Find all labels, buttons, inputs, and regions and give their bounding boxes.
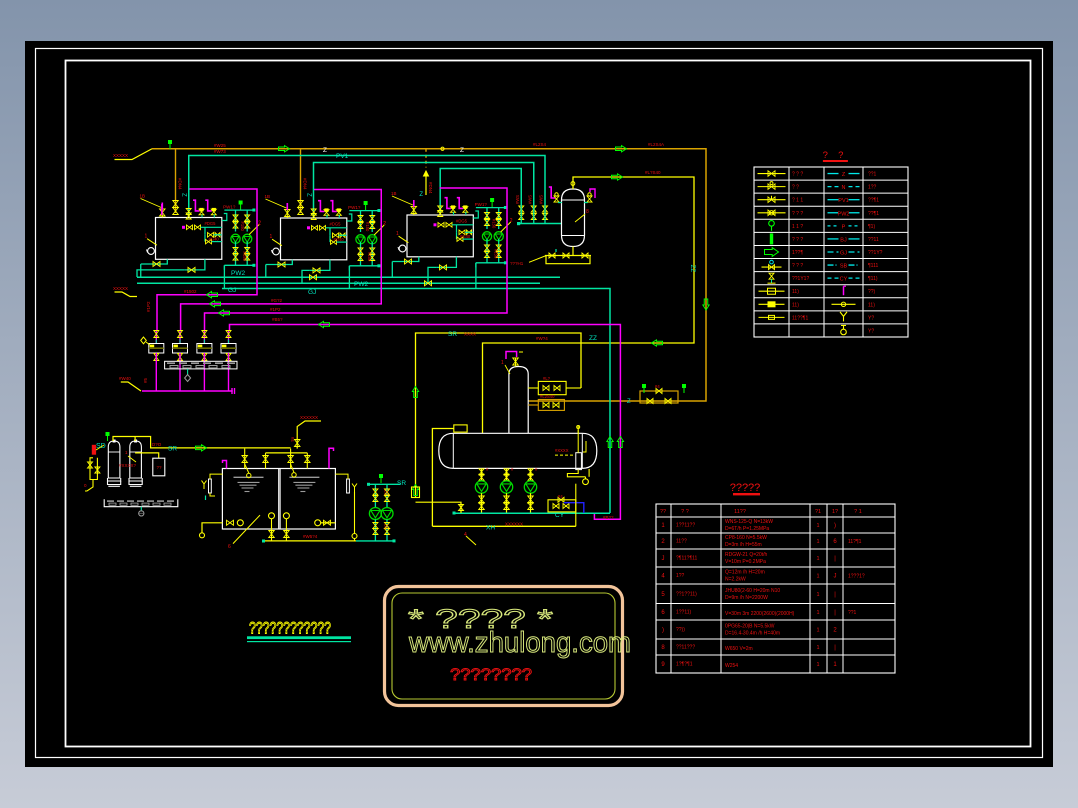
boiler B2 internal blowdown lines [307,226,310,229]
title underline thick [247,636,351,639]
right gauge Y fitting [352,484,357,493]
title underline thin [247,641,351,642]
boiler B1 right-top teal stub [222,214,227,221]
svg-text:#L?S40: #L?S40 [645,170,661,175]
svg-text:#XXXX?: #XXXX? [119,463,137,468]
boiler B1 top valve with vent [160,209,166,216]
svg-text:#B??: #B?? [603,515,614,520]
sample drain header [142,390,233,392]
svg-text:#DN4: #DN4 [428,182,433,194]
CY strainer assembly [548,500,576,512]
svg-text:????????: ???????? [450,666,532,684]
deaerator drain [567,470,585,477]
svg-text:W254: W254 [725,663,738,669]
deaerator inlet box [454,425,467,432]
svg-text:WNS-125-Q N=13kW: WNS-125-Q N=13kW [725,519,773,525]
svg-text:#G40: #G40 [209,236,220,241]
svg-text:#L2S4: #L2S4 [533,142,547,147]
svg-text:SR: SR [397,480,406,487]
svg-text:1??: 1?? [868,185,877,191]
svg-text:GJ: GJ [308,289,316,296]
boiler B1 pump tag 2 [249,225,259,235]
svg-text:#1502: #1502 [184,289,197,294]
svg-text:??1Y1?: ??1Y1? [792,276,809,282]
steam manifold valves [519,206,524,212]
svg-text:??¶1: ??¶1 [868,198,879,204]
svg-text:1: 1 [816,523,819,529]
svg-text:P: P [842,224,846,230]
boiler B1 internal blowdown lines [182,226,185,229]
svg-text:#B5?: #B5? [272,317,283,322]
column top valve [513,358,519,365]
filter bypass loop [90,458,97,480]
sample trench [165,361,237,369]
svg-text:#W40: #W40 [119,376,131,381]
svg-text:PW1?: PW1? [475,202,488,207]
svg-text:??11???: ??11??? [676,645,695,651]
svg-text:???H1: ???H1 [510,261,524,266]
sample line D [230,325,621,520]
softened water tanks [222,469,335,530]
svg-text:D?O: D?O [152,442,162,447]
boiler B2 pump discharge header [349,265,378,267]
svg-text:D=6T/h P=1.25MPa: D=6T/h P=1.25MPa [725,526,769,532]
junction circle on Z [441,147,444,150]
svg-text:11??¶1: 11??¶1 [792,315,808,321]
boiler B1 feed pump header [224,209,253,211]
svg-text:J: J [834,574,837,580]
boiler B3 internal blowdown lines [434,223,437,226]
svg-text:V=30m 3m 2200(2600)(2000H): V=30m 3m 2200(2600)(2000H) [725,611,795,617]
svg-text:Z: Z [460,147,464,154]
left yellow feed stub [115,292,138,297]
svg-text:??): ??) [868,289,876,295]
svg-text:??)): ??)) [676,627,685,633]
boiler B3 blowdown outlet left [392,257,419,262]
tank inlet drops [245,464,249,473]
vessel steam out ZZ [483,177,695,433]
blowdown line GJ [222,289,610,514]
SR line to tanks [178,447,291,449]
tank bottom header [262,540,265,543]
svg-text:??1: ??1 [848,610,857,616]
boiler B2 feed pump header [349,210,378,212]
svg-text:Z: Z [323,147,327,154]
svg-text:1???1?: 1???1? [848,574,865,580]
svg-text:PV1: PV1 [838,198,848,204]
svg-text:D=16.4-30.4m /h H=40m: D=16.4-30.4m /h H=40m [725,631,780,637]
svg-text:N: N [842,185,846,191]
boiler B3 top valve with vent [411,207,417,214]
boiler feed suction line CY [454,512,610,514]
boiler B2 steam valve [311,209,316,215]
svg-text:#W?4: #W?4 [536,336,548,341]
svg-text:#L2S40: #L2S40 [540,394,555,399]
svg-text:PW2: PW2 [354,281,368,288]
pump discharge drop B1 [223,265,225,288]
svg-text:??: ?? [157,465,163,470]
svg-text:1?: 1? [832,509,838,515]
svg-text:GJ: GJ [228,287,236,294]
svg-text:11): 11) [868,302,875,308]
svg-text:SB: SB [840,264,848,270]
Z riser to boiler 3 [425,149,427,168]
SR instrument loop [412,487,420,498]
svg-text:Q=12m /h H=20m: Q=12m /h H=20m [725,570,765,576]
sample line A [157,189,257,330]
equipment table grid [656,504,895,673]
salt tank feed [135,453,159,458]
boiler blowdown drops [140,264,142,277]
transfer pumps [368,483,400,485]
svg-text:#4: #4 [290,437,295,442]
svg-text:#1P2: #1P2 [270,307,281,312]
svg-text:Z: Z [419,192,423,198]
svg-text:Y?: Y? [868,315,874,321]
svg-text:#150: #150 [367,252,372,262]
tank outlets [202,523,222,533]
svg-text:1: 1 [816,610,819,616]
svg-text:#DG5: #DG5 [456,218,468,223]
deaerator level gauge [576,453,582,470]
svg-text:www.zhulong.com: www.zhulong.com [408,627,631,659]
boiler B2 burner circle [273,248,280,255]
boiler B1 shell [156,218,222,260]
sample line C [205,188,508,330]
svg-text:1B: 1B [140,194,146,199]
svg-text:Z: Z [306,193,312,197]
tank inlet manifold [266,452,308,454]
svg-text:?: ? [838,150,843,161]
blue instrument line [564,503,584,513]
svg-text:): ) [834,523,836,529]
svg-text:Y?: Y? [868,328,874,334]
softener filters [108,441,120,478]
svg-text:8: 8 [586,209,589,215]
svg-text:1: 1 [270,234,273,240]
boiler 3 steam header [440,169,521,215]
boiler B3 feed pump header [476,207,505,209]
svg-text:ZZ: ZZ [689,265,695,273]
svg-text:#1P2: #1P2 [146,301,151,312]
tank level gauges [209,479,212,493]
svg-text:#WS: #WS [515,195,520,204]
svg-text:D=9m /h N=2200W: D=9m /h N=2200W [725,595,768,601]
svg-text:GJ: GJ [840,251,847,257]
svg-text:1: 1 [816,645,819,651]
svg-text:1B: 1B [265,194,271,199]
svg-text:SR: SR [448,331,457,338]
svg-text:PW1?: PW1? [348,205,361,210]
svg-text:N=2.2kW: N=2.2kW [725,577,746,583]
boiler B3 safety vent elbows [445,198,451,209]
svg-text:Z: Z [627,399,631,405]
svg-text:1: 1 [145,234,148,240]
boiler B1 feed pumps [235,210,237,231]
boiler B1 blowdown outlet right [185,259,205,270]
svg-text:Z5: Z5 [384,490,389,496]
boiler B2 shell [281,218,347,260]
boiler B1 blowdown outlet left [141,259,168,264]
boiler B2 top valve with vent [285,210,291,217]
svg-text:?1: ?1 [815,509,821,515]
column tag 1 [505,365,510,374]
svg-text:XH: XH [486,525,495,532]
boiler B3 shell [407,215,473,257]
svg-text:??: ?? [660,509,666,515]
column steam-in assembly upper [538,381,566,394]
svg-text:??¶1: ??¶1 [868,211,879,217]
svg-text:D=3m /h H=55m: D=3m /h H=55m [725,542,762,548]
svg-text:1: 1 [816,628,819,634]
svg-text:#4: #4 [655,384,660,389]
vessel vent elbows [549,187,556,198]
svg-text:1: 1 [816,592,819,598]
sample coolers [155,330,157,343]
svg-text:CY: CY [555,512,565,519]
boiler vent stub B1 [161,204,163,215]
svg-text:CP8-160 N=5.5kW: CP8-160 N=5.5kW [725,535,767,541]
boiler B2 blowdown outlet right [310,260,330,271]
pump tag 4 [466,536,476,545]
sampler tag [141,337,147,344]
deaerator column [509,367,528,434]
svg-text:#150: #150 [492,219,497,229]
svg-text:? ? ?: ? ? ? [792,172,803,178]
svg-text:#G40: #G40 [460,234,471,239]
feedwater line PW2 lower [137,282,540,284]
svg-text:1??11??: 1??11?? [676,523,695,529]
svg-text:#L2S4A: #L2S4A [648,142,664,147]
svg-text:CY: CY [840,277,848,283]
svg-text:11?¶1: 11?¶1 [848,539,862,545]
svg-text:¶1): ¶1) [868,224,875,230]
svg-text:#5: #5 [143,377,148,383]
recirculation XH line [432,525,575,527]
boiler B3 pump tag 2 [501,222,511,232]
svg-text:????????????: ???????????? [249,619,331,638]
svg-text:1: 1 [816,662,819,668]
svg-text:ZZ: ZZ [589,335,597,342]
svg-text:BJ: BJ [840,237,847,243]
svg-text:2: 2 [510,218,513,224]
boiler B3 feed pumps [486,208,488,229]
svg-text:??1??11): ??1??11) [676,591,697,597]
svg-text:? ? ?: ? ? ? [792,237,803,243]
svg-text:¶11): ¶11) [868,276,878,282]
Z pressure reducing bypass [640,391,678,403]
svg-text:?¶11?¶11: ?¶11?¶11 [676,556,698,562]
svg-text:RDGW-21 Q=20t/h: RDGW-21 Q=20t/h [725,552,768,558]
svg-text:#G?2: #G?2 [271,298,283,303]
boiler B2 blowdown outlet left [266,260,293,265]
boiler B1 safety vent elbows [193,200,199,211]
svg-text:#W73: #W73 [214,149,226,154]
svg-text:#DN4: #DN4 [178,178,183,190]
salt tank [153,458,165,476]
XH drop from drain [575,484,577,527]
svg-text:J: J [662,556,665,562]
svg-text:1??11): 1??11) [676,609,692,615]
tank magenta stubs [223,461,227,469]
svg-text:? 1: ? 1 [854,509,862,515]
svg-text:SR: SR [168,446,177,453]
svg-text:1??¶: 1??¶ [792,250,803,256]
svg-text:1: 1 [816,556,819,562]
tank vent riser [297,421,321,449]
svg-text:#150: #150 [242,252,247,262]
vent flag on Z [169,144,171,149]
pump discharge drop B2 [348,266,350,289]
svg-text:? ?: ? ? [792,185,799,191]
boiler B3 steam valve [438,206,443,212]
boiler B2 right-top teal stub [347,214,352,221]
recirc takeoff [416,502,462,513]
steam main Z line [115,149,153,160]
inner white border [66,61,1031,747]
Z riser to boiler 1 [175,149,177,213]
svg-text:#W5?4: #W5?4 [303,534,318,539]
deaerator shell [453,433,582,468]
boiler 2 steam header [314,163,534,219]
svg-text:#DN4: #DN4 [303,178,308,190]
svg-text:?????: ????? [730,482,761,494]
svg-text:1 1 ?: 1 1 ? [792,224,803,230]
svg-text:XXXXXX: XXXXXX [505,522,523,527]
svg-text:1??: 1?? [676,573,685,579]
boiler B2 feed pumps [360,211,362,232]
legend line symbols col3 [828,173,839,175]
svg-text:#150: #150 [494,249,499,259]
feedwater line PW2 upper [137,276,560,278]
svg-text:4: 4 [464,532,467,538]
svg-text:1: 1 [501,360,504,366]
legend table grid [754,167,908,337]
treatment trench [104,499,178,506]
svg-text:1: 1 [396,231,399,237]
svg-text:1?¶?¶1: 1?¶?¶1 [676,662,693,668]
boiler B3 blowdown outlet right [436,257,456,268]
blowdown vessel [562,189,585,247]
cooling water inlet [121,382,141,391]
tank water levels [234,476,264,478]
svg-text:PW2: PW2 [838,211,850,217]
svg-text:1: 1 [816,539,819,545]
boiler B1 steam valve [186,209,191,215]
svg-text:2: 2 [383,221,386,227]
boiler B2 safety vent elbows [318,201,324,212]
svg-text:XXXXXX: XXXXXX [300,415,318,420]
boiler steam header PV1 [189,156,545,218]
manifold to blowdown vessel [519,223,562,225]
svg-text:XXXXX: XXXXX [113,286,128,291]
svg-text:#DG5: #DG5 [330,221,342,226]
svg-text:JHU80(2-60 H=20m N10: JHU80(2-60 H=20m N10 [725,588,780,594]
boiler B3 burner circle [399,245,406,252]
svg-text:? ? ?: ? ? ? [792,211,803,217]
svg-text:#WS: #WS [527,195,532,204]
svg-text:V=10m P=0.2MPa: V=10m P=0.2MPa [725,559,766,565]
Z riser to boiler 2 [300,149,302,213]
svg-text:11??: 11?? [734,509,746,515]
svg-text:0PG65-20|B N=5.5kW: 0PG65-20|B N=5.5kW [725,624,775,630]
svg-text:11): 11) [792,289,799,295]
svg-text:Z5: Z5 [384,524,389,530]
svg-text:? ?: ? ? [681,509,689,515]
svg-text:2: 2 [258,221,261,227]
svg-text:??1Y?: ??1Y? [868,250,883,256]
boiler B3 pump discharge header [476,262,505,264]
vessel side valves [554,196,559,202]
svg-text:#W25: #W25 [214,143,226,148]
boiler B1 burner circle [148,248,155,255]
vessel drain assembly [572,247,574,256]
svg-text:PV1: PV1 [336,153,349,160]
svg-text:? ? ?: ? ? ? [792,263,803,269]
boiler B1 pump discharge header [224,264,253,266]
pump discharge drop B3 [475,263,477,289]
boiler B3 right-top teal stub [473,211,478,218]
svg-text:11??: 11?? [676,539,687,545]
svg-text:??11: ??11 [868,237,879,243]
svg-text:1B: 1B [391,191,397,196]
svg-text:#150: #150 [365,222,370,232]
svg-text:1: 1 [816,574,819,580]
svg-text:??1: ??1 [868,172,877,178]
svg-text:#L?: #L? [543,376,551,381]
svg-text:): ) [662,628,664,634]
sample line B [181,190,382,331]
svg-text:? 1 1: ? 1 1 [792,198,803,204]
boiler B2 pump tag 2 [374,225,384,235]
filter top manifold [113,437,178,448]
svg-text:6: 6 [228,544,231,550]
svg-text:PW2: PW2 [231,270,245,277]
svg-text:#WS: #WS [539,195,544,204]
column steam-in assembly lower orange [538,400,564,411]
svg-text:Z: Z [181,193,187,197]
svg-text:#XXXX: #XXXX [555,448,569,453]
svg-text:11): 11) [792,302,799,308]
svg-text:PW1?: PW1? [223,205,236,210]
svg-text:#DG5: #DG5 [205,221,217,226]
svg-text:#G40: #G40 [334,237,345,242]
softened water riser SR [416,333,582,497]
arrows on Z line [279,146,290,152]
deaerator feed pumps [481,468,483,481]
svg-text:W650 V=2m: W650 V=2m [725,646,753,652]
svg-text:XXXX: XXXX [464,332,476,337]
svg-text:#150: #150 [240,222,245,232]
svg-text:¶111: ¶111 [868,263,879,269]
legend symbols column 1 [758,173,786,175]
svg-text:?: ? [823,150,828,161]
watermark box [385,587,623,706]
svg-text:XXXXX: XXXXX [113,153,128,158]
svg-text:#4: #4 [558,494,563,499]
